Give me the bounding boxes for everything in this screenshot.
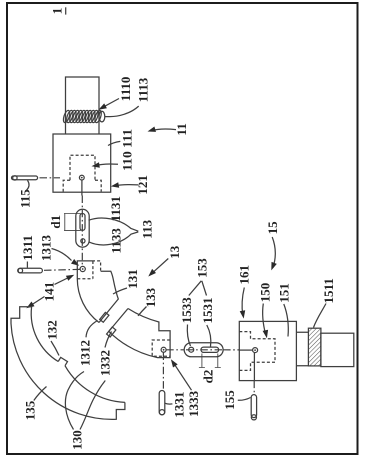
body 111 of block 11 bbox=[53, 134, 111, 192]
centerline pin 1311 to pivot bbox=[44, 268, 80, 271]
svg-text:153: 153 bbox=[194, 258, 209, 278]
tab 1312 on sector 131 bbox=[100, 312, 109, 322]
svg-text:161: 161 bbox=[237, 265, 252, 285]
arc segment 135 with castellated end bbox=[11, 307, 125, 420]
svg-text:1331: 1331 bbox=[171, 392, 186, 418]
svg-text:1332: 1332 bbox=[97, 350, 112, 376]
pivot circle 133 bbox=[161, 347, 166, 352]
dashed T-slot 150 bbox=[239, 332, 275, 371]
svg-text:130: 130 bbox=[69, 430, 84, 450]
centerline vertical block 11 to arc pivot bbox=[81, 180, 83, 196]
brace 153 left branch bbox=[189, 281, 202, 296]
pivot circle block 15 bbox=[253, 348, 258, 353]
link plate 113 capsule bbox=[76, 209, 89, 247]
svg-text:d1: d1 bbox=[48, 215, 63, 229]
svg-text:11: 11 bbox=[174, 123, 189, 135]
svg-text:1333: 1333 bbox=[186, 390, 201, 417]
dashed bearing square in 133 bbox=[152, 340, 170, 356]
dashed T-slot 110 bbox=[63, 155, 101, 191]
svg-text:135: 135 bbox=[23, 400, 38, 420]
svg-text:131: 131 bbox=[125, 269, 140, 289]
body 151 of block 15 bbox=[239, 321, 296, 380]
leader 1333 arrow bbox=[173, 362, 192, 390]
svg-text:115: 115 bbox=[17, 189, 32, 208]
hole 1133 bbox=[81, 239, 85, 243]
svg-text:d2: d2 bbox=[201, 370, 216, 384]
leader 141 upper arrow bbox=[55, 276, 72, 284]
leader 15 arrow bbox=[272, 237, 275, 268]
leader from slot to 113 bbox=[89, 218, 139, 231]
svg-text:132: 132 bbox=[44, 320, 59, 340]
pin 1311 bbox=[18, 268, 43, 273]
svg-text:1312: 1312 bbox=[78, 340, 93, 366]
spring 1110 bbox=[62, 110, 102, 124]
slide tab step on 135 bbox=[58, 357, 67, 365]
svg-text:113: 113 bbox=[140, 219, 155, 238]
hole 1533 bbox=[189, 347, 194, 352]
svg-text:1: 1 bbox=[50, 8, 65, 15]
leader 130 left bbox=[65, 372, 84, 430]
dashed bearing square 1313 in 131 bbox=[77, 261, 93, 279]
inner arc of 135 lower part bbox=[65, 366, 125, 403]
leader 1110 bbox=[101, 99, 120, 109]
dimension d2 bbox=[199, 354, 221, 368]
leader 135 bbox=[34, 387, 47, 401]
leader 115 bbox=[27, 180, 30, 190]
svg-text:1511: 1511 bbox=[321, 278, 336, 303]
leader 11 arrow bbox=[151, 129, 177, 131]
pivot circle 131 bbox=[80, 266, 85, 271]
leader 133 bbox=[138, 307, 147, 316]
leader 130 right bbox=[80, 381, 105, 430]
shaft tube right of 1511 bbox=[321, 333, 354, 366]
slot 1131 bbox=[80, 214, 85, 231]
leader 1511 bbox=[314, 304, 327, 328]
svg-text:133: 133 bbox=[143, 287, 158, 307]
tab 1332 on sector 133 bbox=[107, 327, 116, 337]
centerline 133 pivot to pin 1331 bbox=[162, 353, 164, 391]
svg-text:141: 141 bbox=[42, 282, 57, 302]
centerline block 15 to pin 155 bbox=[253, 353, 255, 381]
sector 133 head and body bbox=[109, 309, 170, 358]
centerline horizontal through pin 115 bbox=[40, 177, 61, 179]
leader 1331 bbox=[165, 402, 173, 405]
leader 1533 bbox=[187, 325, 190, 347]
leader 131 bbox=[113, 288, 127, 294]
pin 1331 bbox=[159, 391, 165, 415]
shaft stubs to 1511 bbox=[296, 332, 308, 366]
dimension d1 bbox=[64, 214, 81, 231]
leader 1312 bbox=[86, 321, 98, 338]
leader 150 arrow bbox=[263, 304, 266, 336]
tube 1113 housing bbox=[66, 77, 100, 134]
brace 153 right branch bbox=[202, 281, 207, 296]
leader 1311 bbox=[26, 262, 28, 268]
figure label underline bbox=[65, 7, 67, 14]
svg-text:150: 150 bbox=[257, 283, 272, 303]
pin 115 bbox=[12, 176, 38, 180]
leader 1313 arrow bbox=[52, 249, 72, 261]
svg-text:1313: 1313 bbox=[38, 235, 53, 262]
sector 131 head and body bbox=[77, 261, 99, 323]
slot 1531 bbox=[201, 347, 219, 352]
leader 121 arrow bbox=[114, 185, 138, 186]
svg-text:15: 15 bbox=[265, 221, 280, 235]
svg-text:1311: 1311 bbox=[20, 235, 35, 260]
leader 132 bbox=[51, 341, 59, 356]
leader 161 arrow bbox=[242, 288, 244, 316]
svg-text:1533: 1533 bbox=[179, 297, 194, 324]
leader from hole to 113 bbox=[89, 232, 139, 245]
inner arc 132 of 135 upper part bbox=[31, 307, 58, 362]
svg-text:1131: 1131 bbox=[108, 196, 123, 221]
slider plate 153 capsule bbox=[184, 343, 223, 357]
hatched shaft section 1511 bbox=[308, 328, 321, 366]
svg-text:13: 13 bbox=[167, 245, 182, 259]
leader 141 lower arrow bbox=[29, 297, 45, 307]
leader 151 bbox=[284, 304, 289, 337]
leader 1531 bbox=[207, 325, 211, 347]
svg-text:1113: 1113 bbox=[136, 77, 151, 102]
leader 1332 bbox=[105, 332, 112, 348]
pivot hole circle in block 11 bbox=[79, 175, 84, 180]
leader 1113 bbox=[105, 106, 139, 117]
leader 110 arrow bbox=[95, 164, 119, 166]
centerline through 153 to block 15 bbox=[166, 349, 239, 351]
svg-text:110 111: 110 111 bbox=[120, 129, 135, 171]
svg-text:1531: 1531 bbox=[200, 298, 215, 324]
pin 155 bbox=[251, 395, 256, 418]
svg-text:151: 151 bbox=[276, 283, 291, 303]
leader 13 arrow bbox=[151, 259, 168, 275]
leader 155 bbox=[238, 398, 251, 401]
spring end plunger 1113 bbox=[99, 111, 105, 122]
leader 111 bbox=[108, 141, 120, 145]
svg-text:155: 155 bbox=[222, 390, 237, 410]
svg-text:1110: 1110 bbox=[118, 77, 133, 102]
